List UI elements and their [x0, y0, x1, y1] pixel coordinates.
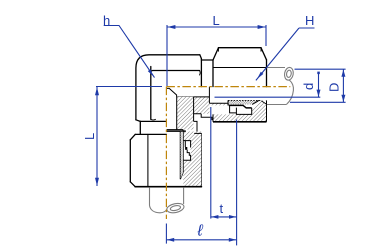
- tube H top line: [267, 67, 285, 69]
- nut inner chamfer wedge line: [261, 101, 266, 104]
- mirrored copy: vertical arm section: [167, 97, 202, 187]
- arrow d top tick: [317, 72, 320, 75]
- svg-text:d: d: [301, 83, 316, 90]
- arrow L top right: [258, 25, 266, 29]
- nose end face: [227, 100, 229, 105]
- arrow d bottom: [317, 90, 321, 97]
- nut H right face: [266, 60, 268, 87]
- leader h: [104, 26, 155, 78]
- nut H chamfer corner ticks: [219, 48, 262, 52]
- dim D bottom extension: [290, 101, 346, 103]
- bore line + corner chamfer (drawn once): [167, 88, 177, 97]
- dim d reference line: [215, 96, 321, 98]
- svg-text:L: L: [82, 133, 97, 140]
- nut hatch block: [213, 100, 267, 121]
- dim L top left extension: [166, 25, 168, 86]
- body face dish horizontal leg: [199, 71, 202, 76]
- sleeve V hook step: [183, 141, 190, 161]
- svg-text:ℓ: ℓ: [197, 223, 204, 240]
- tube V end silhouette arc: [150, 206, 167, 213]
- neck top line (horizontal leg): [201, 59, 213, 61]
- fat tube white overlay (vertical arm): [167, 132, 185, 187]
- arrow t left: [211, 215, 218, 219]
- svg-text:t: t: [220, 201, 224, 216]
- vertical arm hatch field right of sleeve: [183, 132, 201, 187]
- nut left face: [212, 114, 214, 121]
- nut V left edge: [129, 140, 131, 182]
- sleeve V left edge: [179, 132, 181, 180]
- sleeve H white pocket: [236, 108, 251, 114]
- nut H hex edge line: [213, 67, 267, 69]
- tube V right line: [183, 187, 185, 204]
- sleeve stipple strip: [228, 100, 261, 104]
- sleeve H step outline: [230, 105, 237, 113]
- tube V stop shoulder: [166, 130, 185, 132]
- tube end edge: [208, 87, 210, 103]
- body end face (vertical leg): [140, 120, 166, 122]
- sleeve V stipple strip: [180, 132, 183, 179]
- nut V hex edge line: [147, 134, 149, 186]
- arrow ell right: [229, 238, 236, 242]
- sleeve V hook blob: [185, 147, 187, 150]
- dim L top line: [167, 26, 266, 28]
- nut bottom edge: [213, 121, 267, 123]
- dim D top extension: [295, 68, 346, 70]
- arrow L left top: [95, 87, 99, 95]
- sleeve V right edge: [182, 132, 184, 173]
- tube V left line: [149, 187, 151, 205]
- dim L top right extension: [265, 25, 267, 46]
- nut V section top face line: [194, 132, 201, 134]
- counterbore line (tube seat): [177, 96, 210, 98]
- nut H right chamfer: [261, 48, 267, 60]
- dim t line: [211, 216, 237, 218]
- tube H ring inner: [286, 70, 292, 78]
- sleeve V white pocket: [183, 141, 190, 161]
- sleeve nose diagonal: [252, 100, 259, 104]
- neck left line (vertical leg): [139, 121, 141, 134]
- dim L left line: [96, 87, 98, 186]
- body inner corner arc: [151, 71, 153, 73]
- arrow D bottom: [341, 95, 345, 102]
- body end face (horizontal leg): [200, 59, 202, 87]
- large counterbore line: [209, 102, 228, 104]
- nut inner chamfer white wedge: [261, 101, 266, 104]
- nut V bottom chamfer: [130, 182, 135, 187]
- sleeve H box outline: [236, 108, 251, 115]
- tube V ring outer: [166, 202, 185, 214]
- tube H end silhouette arc: [287, 80, 294, 104]
- arrow leader H: [257, 72, 263, 79]
- sleeve H outer thick line: [229, 105, 252, 108]
- centerline horizontal axis: [166, 86, 290, 88]
- centerline vertical axis: [165, 87, 167, 219]
- arrow leader h: [148, 69, 154, 76]
- body face line vertical: [150, 67, 152, 120]
- dim ell left extension: [165, 224, 167, 244]
- nut H left chamfer: [213, 48, 219, 60]
- body bottom chamfer (vertical leg): [136, 120, 140, 122]
- arrow t right: [229, 215, 236, 219]
- arrow D top: [341, 70, 345, 77]
- tube H ring outer: [284, 67, 295, 81]
- tube H bottom line: [267, 104, 287, 106]
- svg-text:H: H: [305, 13, 314, 28]
- dim t right extension: [236, 120, 238, 246]
- body face line horizontal: [153, 70, 200, 72]
- nut thread line dotted: [228, 99, 261, 101]
- nut V bottom edge: [135, 186, 201, 188]
- dim L left top extension: [96, 86, 162, 88]
- dim D line: [342, 69, 344, 102]
- body end / nut face staircase: [201, 114, 213, 120]
- svg-text:L: L: [213, 13, 220, 28]
- dim t left extension: [210, 107, 212, 219]
- body nose thin band: [209, 103, 228, 105]
- svg-text:D: D: [327, 83, 342, 92]
- nut right face: [266, 100, 268, 121]
- nut V top chamfer: [130, 134, 135, 139]
- svg-text:h: h: [103, 13, 110, 28]
- body face dish vertical leg: [151, 118, 156, 121]
- nut H top edge: [219, 47, 262, 49]
- nut H bottom thick edge: [213, 121, 267, 123]
- dim ell line: [166, 239, 236, 241]
- body hex flat line: [177, 113, 202, 115]
- nut V top edge: [135, 133, 166, 135]
- sleeve V pocket top: [183, 141, 190, 148]
- dim d line: [318, 72, 320, 97]
- body end chamfer (horizontal leg): [200, 55, 202, 59]
- body hatch block: [177, 97, 210, 114]
- body outer corner fillet: [136, 55, 200, 120]
- sleeve V nose diagonal: [180, 172, 183, 179]
- leader H: [256, 28, 315, 80]
- arrow L left bottom: [95, 178, 99, 186]
- tube V ring inner: [170, 205, 181, 212]
- nut H left face: [212, 60, 214, 87]
- arrow L top left: [167, 25, 175, 29]
- arrow ell left: [167, 238, 174, 242]
